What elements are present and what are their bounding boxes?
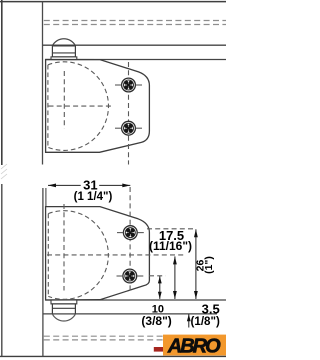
hinge cup dashed circle (top): [48, 62, 109, 151]
screw2 ref dashed horizontal: [149, 275, 166, 277]
screw 1 (bottom drawing upper): [123, 226, 137, 240]
knuckle flange (bottom): [51, 300, 77, 304]
svg-text:(3/8"): (3/8"): [141, 314, 171, 328]
screw B side ticks: [115, 127, 121, 129]
svg-text:ABRO: ABRO: [167, 335, 221, 357]
plate left edge extension (bottom): [45, 188, 47, 207]
cup center horizontal dashed (top): [49, 105, 112, 107]
knuckle dome (top drawing): [52, 39, 75, 46]
dimension 17.5 line: [174, 256, 176, 299]
screw 2 side ticks: [117, 275, 123, 277]
knuckle inner line: [52, 52, 75, 54]
knuckle body: [52, 46, 75, 57]
dim 31 left arrow: [48, 184, 56, 188]
mounting plate outline (top drawing): [46, 60, 150, 153]
screw A side ticks: [115, 84, 121, 86]
cup center vertical dashed (bottom): [63, 204, 65, 291]
screw B (top drawing lower): [122, 121, 136, 135]
screw axis dashed (top): [128, 62, 130, 165]
ABRO logo red mark: [154, 347, 164, 352]
panel core dashed 1 (bottom): [44, 335, 165, 337]
cup chord dashed (top): [47, 65, 49, 147]
plate bottom line (bottom): [46, 299, 226, 301]
svg-text:(1"): (1"): [203, 256, 215, 274]
hinge cup dashed circle (bottom): [48, 211, 108, 300]
dimension 3.5 arrow: [188, 314, 190, 327]
knuckle dome (bottom drawing): [52, 314, 75, 321]
svg-text:3.5: 3.5: [202, 301, 220, 316]
panel core dashed line 2: [44, 24, 226, 26]
panel top line (bottom): [43, 313, 217, 315]
svg-text:(11/16"): (11/16"): [149, 239, 192, 253]
wall line (left vertical): [1, 0, 3, 165]
knuckle inner line (bottom): [52, 307, 75, 309]
cup center horizontal dashed (bottom): [47, 254, 186, 256]
panel bottom edge line: [43, 44, 227, 46]
screw 1 side ticks: [117, 232, 123, 234]
door front line: [42, 2, 44, 165]
screw1 ref dashed horizontal: [147, 228, 193, 230]
knuckle flange: [51, 57, 77, 60]
panel core dashed line 1: [44, 20, 226, 22]
arm top line: [45, 59, 226, 61]
dimension 10 line: [159, 276, 161, 299]
svg-text:(1/8"): (1/8"): [191, 315, 220, 328]
floor line: [0, 355, 226, 357]
cup chord dashed (bottom): [47, 214, 49, 297]
mounting plate outline (bottom drawing): [46, 207, 150, 300]
panel core dashed 2 (bottom): [44, 339, 165, 341]
dim 31 right arrow: [122, 184, 130, 188]
screw A (top drawing upper): [122, 78, 136, 92]
screw 2 (bottom drawing lower): [123, 269, 137, 283]
wall line (bottom drawing): [1, 184, 3, 356]
panel top edge line: [0, 1, 226, 3]
ABRO logo orange block: [163, 335, 226, 356]
screw axis dashed (bottom): [129, 187, 131, 293]
cup center vertical dashed (top): [63, 71, 65, 129]
knuckle body (bottom): [52, 304, 75, 314]
svg-text:(1 1/4"): (1 1/4"): [74, 191, 113, 203]
dimension 31 line: [48, 184, 81, 186]
door front line (bottom): [42, 188, 44, 356]
dimension 26 line: [195, 229, 197, 299]
wall hatch: [1, 164, 7, 179]
